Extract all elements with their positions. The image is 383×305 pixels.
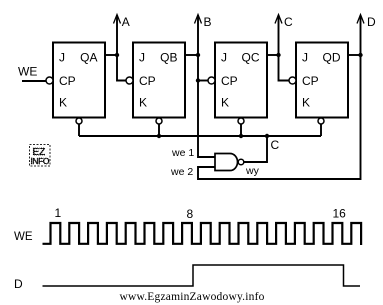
wire QB output to node B [185, 54, 198, 56]
svg-text:8: 8 [187, 207, 194, 221]
arrowhead B [195, 15, 202, 24]
svg-text:www.EgzaminZawodowy.info: www.EgzaminZawodowy.info [119, 291, 264, 303]
svg-text:D: D [14, 277, 23, 291]
junction dot QB at CP3 [196, 78, 200, 82]
wire U3 bottom drop [240, 124, 242, 136]
svg-text:C: C [271, 138, 280, 152]
arrowhead A [114, 15, 121, 24]
wire QC output to node C [267, 54, 279, 56]
D waveform [43, 265, 361, 286]
U1 bottom inverting bubble [76, 118, 82, 124]
U3 CP inverting bubble [208, 77, 215, 84]
svg-text:CP: CP [59, 74, 76, 88]
U2 bottom inverting bubble [156, 118, 162, 124]
wire WE input to U1 CP [22, 80, 46, 82]
junction dot QC [276, 53, 280, 57]
svg-text:J: J [59, 51, 65, 65]
svg-text:D: D [367, 15, 376, 29]
arrowhead C [275, 15, 282, 24]
svg-text:QD: QD [323, 51, 341, 65]
flip-flop U3 box [215, 43, 267, 118]
U2 CP inverting bubble [126, 77, 133, 84]
svg-text:CP: CP [302, 74, 319, 88]
svg-text:QA: QA [80, 51, 97, 65]
NAND gate G1 [215, 154, 238, 171]
svg-text:we 2: we 2 [170, 166, 193, 178]
junction dot QA [115, 53, 119, 57]
U3 bottom inverting bubble [238, 118, 244, 124]
wire node A vertical [117, 15, 126, 81]
wire node D vertical down to we2 [198, 15, 361, 179]
svg-text:J: J [221, 51, 227, 65]
svg-text:K: K [139, 96, 147, 110]
svg-text:INFO: INFO [31, 156, 50, 166]
svg-text:1: 1 [55, 206, 62, 220]
junction dot bus U2 [157, 134, 161, 138]
svg-text:K: K [59, 96, 67, 110]
svg-text:B: B [204, 15, 212, 29]
svg-text:K: K [302, 96, 310, 110]
junction dot QD [358, 53, 362, 57]
flip-flop U2 box [133, 43, 185, 118]
svg-text:QB: QB [160, 51, 177, 65]
junction dot QB top [196, 53, 200, 57]
svg-text:wy: wy [245, 165, 260, 177]
flip-flop U4 box [296, 43, 348, 118]
wire U4 bottom drop [320, 124, 322, 136]
G1 output bubble [238, 159, 244, 165]
svg-text:QC: QC [242, 51, 260, 65]
svg-text:C: C [284, 15, 293, 29]
junction dot bus gate [265, 134, 269, 138]
svg-text:J: J [139, 51, 145, 65]
svg-text:WE: WE [14, 231, 33, 243]
svg-text:CP: CP [221, 74, 238, 88]
svg-text:we 1: we 1 [171, 147, 194, 159]
wire K bus [79, 135, 321, 137]
wire G1 output wy to bus [244, 136, 267, 162]
svg-text:K: K [221, 96, 229, 110]
wire QD output to node D [348, 54, 361, 56]
WE clock waveform [43, 223, 362, 245]
wire node B to U3 CP [198, 80, 208, 82]
wire node B vertical down to we1 [198, 15, 215, 157]
svg-text:WE: WE [18, 65, 37, 79]
EZ INFO watermark logo [30, 145, 51, 167]
arrowhead D [357, 15, 364, 24]
svg-text:A: A [122, 15, 130, 29]
svg-text:CP: CP [139, 74, 156, 88]
U4 bottom inverting bubble [318, 118, 324, 124]
svg-text:16: 16 [333, 207, 347, 221]
U1 CP inverting bubble [46, 77, 53, 84]
wire QA output to node A [105, 54, 117, 56]
flip-flop U1 box [53, 43, 105, 118]
wire node C vertical [279, 15, 290, 81]
svg-text:J: J [302, 51, 308, 65]
wire U1 bottom drop [78, 124, 80, 136]
wire U2 bottom drop [158, 124, 160, 136]
junction dot bus U3 [239, 134, 243, 138]
U4 CP inverting bubble [289, 77, 296, 84]
